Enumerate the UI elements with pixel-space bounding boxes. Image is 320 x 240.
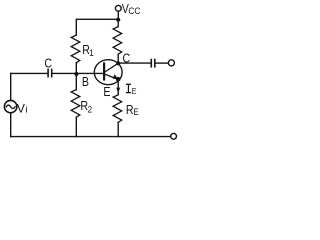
label B	[82, 74, 89, 89]
label C (input capacitor)	[44, 56, 52, 71]
svg-text:B: B	[82, 74, 89, 89]
svg-text:CC: CC	[128, 5, 141, 16]
svg-text:i: i	[25, 105, 27, 116]
svg-text:C: C	[44, 56, 52, 71]
wire bottom rail	[11, 136, 171, 138]
svg-text:V: V	[17, 101, 26, 115]
wire collector resistor top lead	[117, 19, 119, 26]
node C junction	[116, 61, 120, 65]
wire node B to transistor base	[76, 72, 104, 74]
label C (collector)	[123, 50, 131, 65]
wire R1 top lead and top rail	[76, 19, 118, 35]
label IE	[127, 84, 137, 96]
capacitor (output coupling)	[151, 59, 155, 68]
wire R2 top lead	[75, 73, 77, 89]
wire R1 bottom lead	[75, 63, 77, 74]
terminal output bottom	[171, 133, 177, 139]
wire input horizontal to capacitor	[11, 72, 48, 74]
svg-text:2: 2	[88, 104, 93, 115]
node E junction	[116, 77, 121, 82]
wire R2 bottom lead	[75, 117, 77, 136]
current arrow IE	[116, 88, 120, 94]
wire output capacitor to terminal	[156, 62, 169, 64]
resistor RE	[113, 95, 122, 123]
resistor (collector)	[113, 27, 122, 55]
wire collector resistor bottom lead to node C	[117, 54, 119, 63]
resistor R2	[71, 90, 80, 118]
label RE	[126, 102, 139, 117]
label Vi	[17, 101, 28, 115]
wire emitter to RE	[117, 79, 119, 94]
wire node C to output capacitor	[118, 62, 150, 64]
wire VCC to top rail	[117, 11, 119, 19]
wire left vertical lower	[10, 113, 12, 137]
label R2	[80, 98, 92, 115]
wire left vertical upper	[10, 73, 12, 100]
node B junction	[74, 72, 78, 76]
voltage source Vi	[4, 100, 16, 112]
svg-text:E: E	[133, 106, 138, 117]
capacitor C (input coupling)	[48, 69, 52, 78]
terminal output top	[168, 60, 174, 66]
wire RE bottom lead	[117, 122, 119, 136]
wire capacitor to node B	[53, 72, 77, 74]
terminal VCC	[115, 5, 121, 11]
label VCC	[122, 1, 141, 16]
node VCC junction	[116, 18, 120, 22]
label E	[103, 84, 110, 99]
transistor Q1	[94, 60, 122, 85]
resistor R1	[71, 35, 80, 63]
svg-text:E: E	[103, 84, 110, 99]
svg-text:1: 1	[89, 47, 94, 58]
svg-text:E: E	[132, 86, 137, 96]
label R1	[82, 42, 94, 58]
